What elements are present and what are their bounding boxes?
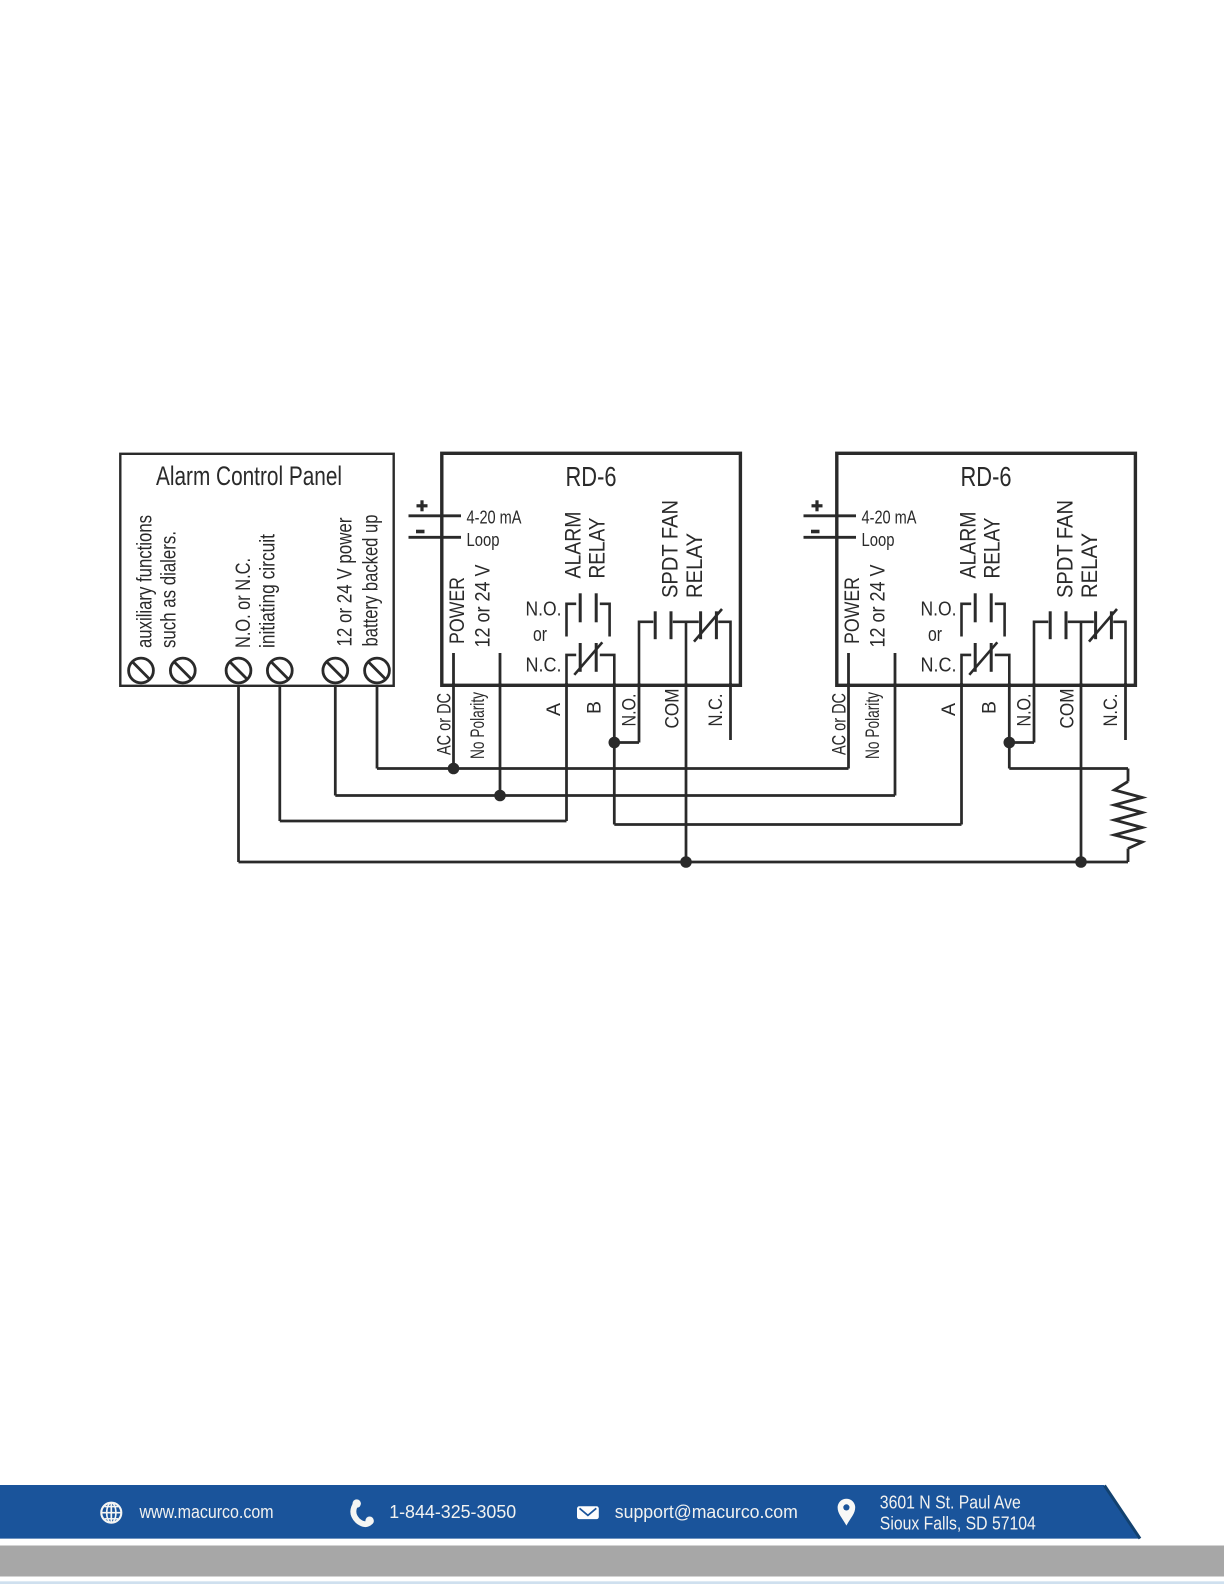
screw terminal T3 [226, 658, 251, 683]
wire: ACP T6 drop [376, 686, 379, 769]
wire: RD6-1 No-Polarity drop [499, 683, 502, 796]
svg-text:battery backed up: battery backed up [360, 515, 383, 647]
svg-text:SPDT FAN: SPDT FAN [1053, 500, 1078, 598]
wire: POWER terminal stub 2 [847, 653, 850, 687]
wire: RD6-2 N.C. stub [1124, 683, 1127, 740]
svg-text:or: or [928, 623, 942, 646]
svg-text:B: B [980, 701, 1001, 714]
minus sign 2 [811, 530, 820, 534]
alarm relay N.O. contact 2 [962, 604, 972, 637]
phone icon [353, 1503, 370, 1524]
svg-text:POWER: POWER [446, 577, 469, 644]
minus sign 1 [416, 530, 425, 534]
svg-text:N.O.: N.O. [1015, 694, 1036, 727]
wire: fan common lead 2 [1068, 620, 1094, 623]
wire: ACP T5 drop [334, 686, 337, 796]
SPDT fan relay N.C. contact 2 [1094, 611, 1097, 639]
svg-text:COM: COM [663, 689, 684, 729]
svg-text:COM: COM [1058, 689, 1079, 729]
junction: RD6-2 B/N.O. [1004, 737, 1016, 749]
box: Alarm Control Panel [120, 454, 393, 686]
svg-text:RD-6: RD-6 [566, 461, 617, 492]
wire: ACP T4 drop [278, 686, 281, 821]
svg-text:B: B [585, 701, 606, 714]
svg-text:ALARM: ALARM [561, 512, 586, 579]
junction: RD6-1 B/N.O. [609, 737, 621, 749]
svg-text:RELAY: RELAY [980, 518, 1005, 579]
wire: RD6-1 AC-or-DC drop [452, 683, 455, 769]
svg-text:RELAY: RELAY [1077, 533, 1102, 598]
screw terminal T5 [323, 658, 348, 683]
bus: common return (ACP T3) [239, 861, 1129, 864]
junction: bus1 / RD6-1 AC-or-DC [448, 763, 460, 775]
wire: 4-20 mA plus lead 1 [409, 514, 462, 517]
wire: RD6-1 A drop [565, 683, 568, 821]
footer blue banner [0, 1485, 1140, 1539]
svg-text:N.C.: N.C. [921, 654, 957, 677]
alarm relay N.C. contact 1 [567, 655, 577, 686]
svg-text:Alarm Control Panel: Alarm Control Panel [156, 461, 342, 491]
svg-text:12 or 24 V: 12 or 24 V [472, 565, 495, 648]
footer light blue edge [0, 1581, 1224, 1584]
svg-text:3601 N St. Paul Ave: 3601 N St. Paul Ave [880, 1493, 1021, 1513]
wire: RD6-2 A drop [960, 683, 963, 825]
svg-text:N.O.: N.O. [526, 598, 562, 621]
svg-text:RD-6: RD-6 [961, 461, 1012, 492]
svg-text:auxiliary functions: auxiliary functions [134, 515, 157, 648]
svg-text:No Polarity: No Polarity [863, 692, 884, 759]
SPDT fan relay N.O. contact 2 [1034, 622, 1048, 686]
svg-text:ALARM: ALARM [956, 512, 981, 579]
wire: RD6-1 B drop [613, 683, 616, 825]
plus sign 1 [417, 504, 428, 507]
svg-text:No Polarity: No Polarity [468, 692, 489, 759]
svg-text:A: A [939, 703, 960, 716]
svg-text:support@macurco.com: support@macurco.com [615, 1502, 798, 1522]
junction: bus2 / RD6-1 No-Polarity [494, 790, 506, 802]
svg-text:N.O. or N.C.: N.O. or N.C. [232, 558, 255, 648]
wire: RD6-2 AC-or-DC drop [847, 683, 850, 769]
svg-text:N.C.: N.C. [706, 694, 727, 727]
svg-text:N.O.: N.O. [620, 694, 641, 727]
SPDT fan relay N.O. contact 1 [639, 622, 653, 686]
svg-text:RELAY: RELAY [682, 533, 707, 598]
bus: power AC-or-DC (ACP T6 to both RD-6) [377, 767, 849, 770]
junction: bus4 / RD6-1 COM [680, 856, 692, 868]
wire: RD6-1 N.C. stub [729, 683, 732, 740]
wire: 12/24V terminal stub 1 [499, 653, 502, 687]
svg-text:A: A [544, 703, 565, 716]
svg-text:Sioux Falls, SD 57104: Sioux Falls, SD 57104 [880, 1513, 1036, 1533]
screw terminal T2 [170, 658, 195, 683]
mail icon [577, 1506, 599, 1519]
SPDT fan relay N.C. contact 1 [699, 611, 702, 639]
bus: RD6-1 B to RD6-2 A [614, 823, 961, 826]
wire: RD6-2 B drop [1008, 683, 1011, 769]
wire: 4-20 mA minus lead 1 [409, 536, 462, 539]
wire: fan common lead 1 [673, 620, 699, 623]
svg-text:4-20 mA: 4-20 mA [862, 507, 918, 528]
alarm relay N.O. contact 1 [567, 604, 577, 637]
screw terminal T6 [365, 658, 390, 683]
resistor (end-of-line) [1127, 769, 1130, 782]
svg-text:1-844-325-3050: 1-844-325-3050 [389, 1502, 516, 1522]
wire: POWER terminal stub 1 [452, 653, 455, 687]
wire: 12/24V terminal stub 2 [894, 653, 897, 687]
wire: RD6-2 COM drop [1080, 683, 1083, 862]
wire: 4-20 mA minus lead 2 [804, 536, 857, 539]
wire: RD6-2 No-Polarity drop [894, 683, 897, 796]
svg-text:initiating circuit: initiating circuit [257, 534, 280, 648]
svg-text:N.C.: N.C. [526, 654, 562, 677]
wire: RD6-1 COM drop [685, 683, 688, 862]
bus: power No-Polarity (ACP T5 to both RD-6) [335, 794, 895, 797]
location pin icon [838, 1499, 856, 1526]
svg-text:12 or 24 V power: 12 or 24 V power [334, 518, 357, 647]
bus: initiating circuit to RD6-1 A [280, 820, 567, 823]
svg-text:RELAY: RELAY [585, 518, 610, 579]
svg-text:12 or 24 V: 12 or 24 V [867, 565, 890, 648]
screw terminal T1 [129, 658, 154, 683]
wire: 4-20 mA plus lead 2 [804, 514, 857, 517]
svg-text:or: or [533, 623, 547, 646]
screw terminal T4 [267, 658, 292, 683]
wire: RD6-2 B to N.O. branch [1009, 741, 1034, 744]
junction: bus4 / RD6-2 COM [1075, 856, 1087, 868]
footer grey band [0, 1546, 1224, 1577]
svg-text:POWER: POWER [841, 577, 864, 644]
svg-text:Loop: Loop [862, 529, 895, 550]
wire: RD6-1 B to N.O. branch [614, 741, 639, 744]
bus: RD6-2 B to resistor [1009, 767, 1128, 770]
svg-text:4-20 mA: 4-20 mA [467, 507, 523, 528]
box: RD-6 unit 1 [442, 453, 741, 685]
svg-text:SPDT FAN: SPDT FAN [658, 500, 683, 598]
svg-text:N.O.: N.O. [921, 598, 957, 621]
box: RD-6 unit 2 [837, 453, 1136, 685]
alarm relay N.C. contact 2 [962, 655, 972, 686]
globe icon [101, 1503, 121, 1523]
svg-text:www.macurco.com: www.macurco.com [139, 1502, 274, 1522]
svg-text:such as dialers.: such as dialers. [158, 531, 181, 648]
wire: ACP T3 drop [237, 686, 240, 862]
svg-text:N.C.: N.C. [1101, 694, 1122, 727]
svg-text:Loop: Loop [467, 529, 500, 550]
plus sign 2 [812, 504, 823, 507]
